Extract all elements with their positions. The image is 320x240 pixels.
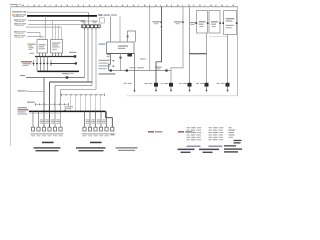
group label quad 1 bbox=[42, 142, 54, 144]
harness wire W3 down bbox=[91, 30, 93, 85]
connector F2 text bbox=[36, 133, 41, 136]
wire W1 return left bbox=[26, 77, 85, 79]
F-row right wires bbox=[85, 111, 107, 127]
F-row wire label L3 bbox=[51, 119, 56, 123]
wire row4b drop to relay K2 bbox=[61, 27, 63, 39]
step corner label bbox=[155, 67, 162, 70]
wires C2 to bus B bbox=[37, 66, 48, 71]
wire row6 bbox=[27, 35, 43, 37]
wire W4 drop to F row bbox=[60, 90, 62, 128]
branch row3 to relay K2 bbox=[52, 20, 54, 39]
wire row4 horizontal into strip bbox=[28, 24, 82, 26]
mid red note 2 bbox=[178, 131, 192, 132]
ground g1 label bbox=[124, 82, 132, 85]
connector G1 text bbox=[82, 133, 87, 136]
connector row C2 pins bbox=[33, 60, 52, 66]
box B1 left label bbox=[190, 22, 196, 25]
bus end label bbox=[98, 14, 117, 16]
harness wire W1 down bbox=[84, 30, 86, 77]
ground g2 block bbox=[154, 83, 158, 87]
group label quad 2 bbox=[90, 142, 102, 144]
wire W1 drop to F row bbox=[43, 78, 45, 128]
relay K2 box bbox=[51, 40, 63, 54]
ECU box M bottom pin blob bbox=[127, 54, 132, 57]
wire W2 return left (thick) bbox=[50, 81, 93, 83]
ground g3 tail arrow bbox=[170, 87, 172, 92]
below-wire text bbox=[62, 73, 74, 74]
wire V3 with step to ground g3 bbox=[171, 7, 183, 83]
wire V2 with step to ground g2 bbox=[156, 7, 162, 83]
ground g5 tail arrow bbox=[205, 87, 207, 92]
wire V6 to ground g6 bbox=[227, 35, 229, 84]
inline pin mark n1 bbox=[110, 69, 112, 71]
text above bus A bbox=[30, 53, 35, 54]
splice bar S2 label bbox=[27, 102, 35, 103]
connector G4 bbox=[99, 127, 102, 131]
relay K2 inner text bbox=[52, 42, 61, 49]
F-row right label R1 bbox=[86, 119, 91, 123]
connector F5 text bbox=[52, 133, 57, 136]
wire W3 drop to F row bbox=[54, 86, 56, 128]
ground g4 block bbox=[188, 83, 192, 87]
F-row wire label L1 bbox=[40, 119, 45, 123]
thick feed bus row 2 bbox=[27, 15, 97, 17]
ECU box M feed wire bbox=[110, 17, 112, 43]
long wire V1 bbox=[149, 7, 151, 71]
wire run to ground g3 bbox=[109, 70, 172, 72]
wire W3 return left bbox=[55, 85, 92, 87]
corner note block bbox=[224, 140, 242, 153]
bus A end text bbox=[69, 52, 76, 53]
bus D end connector text bbox=[110, 133, 115, 135]
W1 pin text bbox=[63, 73, 69, 74]
component box B1 bbox=[197, 11, 208, 34]
ECU box M top jumper bbox=[128, 31, 136, 42]
F-row right label R4 bbox=[102, 119, 107, 123]
relay K1 inner text bbox=[39, 44, 46, 49]
net text row dark bbox=[99, 73, 116, 74]
wire W4 return left bbox=[61, 89, 97, 91]
connector strip C1 body bbox=[82, 25, 101, 29]
relay K1 left label bbox=[28, 44, 36, 50]
harness wire W2 down bbox=[87, 30, 89, 82]
ground g1 arrowhead bbox=[133, 90, 135, 92]
label wire row 4 bbox=[14, 23, 26, 26]
bus D jog text bbox=[65, 106, 74, 109]
ECU box M inner text bbox=[118, 45, 128, 49]
bus D corner drop bbox=[106, 111, 113, 127]
wire row3 horizontal bbox=[28, 19, 85, 21]
connector F3 text bbox=[41, 133, 46, 136]
connector G5 text bbox=[104, 133, 109, 136]
component box B2 bbox=[209, 11, 220, 34]
strip C1 cells bbox=[83, 25, 100, 27]
ground g2 tail arrow bbox=[155, 87, 157, 92]
branch row4 to relay K2 bbox=[55, 25, 57, 40]
V2 label bbox=[152, 21, 162, 24]
caption block right bbox=[116, 147, 138, 151]
ground g6 label bbox=[217, 82, 225, 85]
connector F2 bbox=[37, 127, 40, 131]
wire row5 drop bbox=[39, 32, 41, 39]
wire end pin near g3 bbox=[165, 69, 167, 71]
connector F1 text bbox=[30, 133, 35, 136]
ECU box M bbox=[107, 42, 135, 54]
bus A thick bbox=[35, 56, 75, 58]
box B3 text bbox=[226, 18, 235, 28]
legend column A bbox=[187, 127, 202, 147]
legend caption B bbox=[199, 149, 219, 153]
bus A end pin bbox=[74, 55, 77, 58]
box B2 pin mark bbox=[219, 22, 221, 24]
wire from M to ground g1 bbox=[134, 54, 136, 92]
wires bus A to C2 bbox=[37, 57, 48, 62]
connector F6 bbox=[59, 127, 62, 131]
V3 label bbox=[174, 21, 184, 24]
wire row5 bbox=[27, 31, 40, 33]
bus D end connector bbox=[111, 127, 114, 131]
relay K1 box bbox=[37, 40, 48, 54]
F-row right label R2 bbox=[91, 119, 96, 123]
box M drop 2 pin bbox=[119, 57, 121, 59]
branch dark to g5 bbox=[206, 33, 208, 83]
W1 left label bbox=[20, 75, 25, 76]
wire P bbox=[28, 91, 44, 93]
caption block mid bbox=[76, 147, 106, 151]
connector G1 bbox=[83, 127, 86, 131]
bus D lower thin line bbox=[29, 112, 62, 114]
ECU box M feed wire 2 bbox=[119, 17, 121, 43]
connector G4 text bbox=[98, 133, 103, 136]
ground g4 label bbox=[179, 82, 187, 85]
splice drops S1 to bus D bbox=[71, 95, 101, 112]
ground g2 label bbox=[145, 82, 153, 85]
right border rule bbox=[237, 7, 239, 96]
connector G2 bbox=[88, 127, 91, 131]
connector F6 text bbox=[58, 133, 63, 136]
top border rule with zone ticks bbox=[11, 6, 239, 8]
ground g4 tail arrow bbox=[188, 87, 190, 92]
splice bar S2 bbox=[35, 103, 69, 106]
branch row4 to relay K2 pin bbox=[58, 25, 60, 40]
net pin list column bbox=[99, 60, 115, 69]
wire W2 drop to F row bbox=[49, 82, 51, 127]
label wire row 2 bbox=[12, 14, 26, 17]
wire from M down-left bbox=[109, 54, 111, 71]
box B1 pin marks bbox=[195, 22, 208, 24]
ground g5 label bbox=[196, 82, 204, 85]
mid wire end pin bbox=[75, 62, 77, 64]
wire row6 drop bbox=[42, 36, 44, 39]
jumper pin blob bbox=[127, 36, 129, 38]
W1 inline pin mark bbox=[66, 76, 68, 78]
connector F1 bbox=[31, 127, 34, 131]
relay K1 pins down bbox=[40, 53, 46, 56]
label wire row 1 bbox=[12, 11, 26, 12]
wire row4b short bbox=[26, 26, 62, 28]
branch bus to relay K1 bbox=[45, 16, 47, 40]
inline pin mark n2 bbox=[126, 69, 128, 71]
side note bbox=[140, 58, 146, 59]
small relay box above M bbox=[100, 18, 105, 23]
zone numbers bbox=[22, 5, 233, 6]
ground g5 block bbox=[205, 83, 209, 87]
inline net label bbox=[130, 67, 145, 68]
wire row1 drop bbox=[88, 12, 90, 24]
V2 lower pin tick bbox=[161, 26, 163, 27]
caption block left bbox=[34, 147, 61, 151]
F-row wire label L4 bbox=[56, 119, 61, 123]
legend caption A bbox=[178, 149, 195, 153]
wire row1 horizontal bbox=[27, 11, 89, 13]
strip C1 pin ticks bbox=[85, 28, 97, 30]
pin number row above strip C1 bbox=[81, 21, 98, 24]
connector G5 bbox=[105, 127, 108, 131]
wire V4 to ground g4 bbox=[189, 7, 191, 83]
connector row C2 label bbox=[21, 61, 32, 66]
ground g6 tail arrow bbox=[226, 87, 228, 92]
ground rail bbox=[127, 95, 238, 97]
relay K2 pins down bbox=[53, 53, 62, 56]
connector F4 text bbox=[47, 133, 52, 136]
left border rule bbox=[10, 7, 12, 146]
box B2 text bbox=[211, 21, 218, 27]
legend right column bbox=[229, 127, 236, 138]
component box B3 bbox=[224, 11, 237, 35]
mid red note 1 bbox=[148, 131, 162, 132]
connector F5 bbox=[53, 127, 56, 131]
ground g3 block bbox=[169, 83, 173, 87]
bus D jog slash bbox=[62, 110, 66, 112]
sheet title dash top-left bbox=[10, 4, 22, 5]
ground g6 block bbox=[226, 83, 230, 87]
bus D thick bbox=[29, 110, 106, 112]
harness wire W4 down bbox=[95, 30, 97, 89]
box M drop 2 bbox=[120, 54, 122, 71]
label wire row 5 bbox=[14, 31, 26, 34]
ECU box M bottom edge bbox=[107, 53, 135, 55]
ground g3 label bbox=[161, 82, 169, 85]
connector G3 bbox=[94, 127, 97, 131]
F-row left wires bbox=[33, 111, 39, 127]
connector F3 bbox=[42, 127, 45, 131]
ECU box M label left bbox=[99, 43, 106, 44]
bus B thick bbox=[38, 70, 80, 72]
F-row right label R3 bbox=[97, 119, 102, 123]
M pin text left bbox=[107, 54, 110, 57]
box B1 text bbox=[199, 21, 206, 27]
label wire row 3 bbox=[14, 19, 26, 22]
legend column B bbox=[209, 127, 224, 147]
connector G3 text bbox=[93, 133, 98, 136]
box row bottom line bbox=[209, 36, 228, 38]
wire row3 drop bbox=[84, 20, 86, 24]
connector F4 bbox=[48, 127, 51, 131]
box B3 pin marks bbox=[222, 22, 237, 24]
node label P line bbox=[18, 90, 28, 91]
left note block bbox=[18, 107, 29, 114]
mid wire at 63 bbox=[52, 62, 76, 64]
F-row wire label L2 bbox=[45, 119, 50, 123]
connector G2 text bbox=[87, 133, 92, 136]
label wire row 6 bbox=[14, 35, 26, 38]
splice bar S1 bbox=[61, 94, 105, 97]
